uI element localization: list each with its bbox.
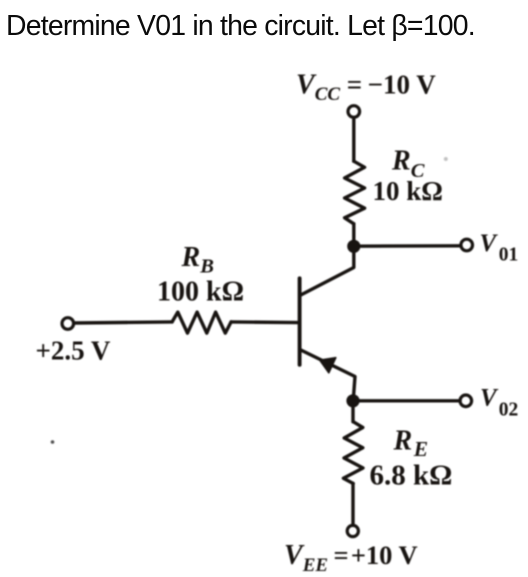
svg-text:6.8 kΩ: 6.8 kΩ	[370, 460, 453, 492]
resistor RC	[345, 161, 365, 224]
svg-text:10 kΩ: 10 kΩ	[373, 176, 443, 206]
svg-text:100 kΩ: 100 kΩ	[157, 276, 244, 307]
resistor RB	[172, 312, 231, 333]
+2.5V terminal	[62, 318, 74, 330]
wire RC to collector node	[352, 224, 355, 247]
wire RE to VEE terminal	[351, 484, 354, 526]
svg-text:RB: RB	[181, 242, 214, 278]
svg-text:VCC= −10 V: VCC= −10 V	[296, 70, 436, 106]
V01 terminal	[461, 239, 473, 251]
svg-text:VEE= +10 V: VEE= +10 V	[284, 540, 418, 576]
wire VCC to RC	[352, 118, 355, 162]
svg-text:RE: RE	[393, 425, 429, 461]
wire node to V02 terminal	[353, 399, 460, 402]
VEE terminal	[347, 525, 358, 536]
wire node to V01 terminal	[354, 244, 461, 248]
svg-text:+2.5 V: +2.5 V	[36, 336, 111, 366]
resistor RE	[343, 422, 363, 484]
V02 terminal	[460, 395, 472, 407]
transistor Q1 base bar	[298, 278, 302, 365]
VCC terminal	[348, 106, 360, 118]
emitter lead with elbow	[300, 350, 355, 401]
svg-text:V02: V02	[480, 385, 518, 421]
wire base: +2.5V terminal to RB	[74, 322, 172, 323]
emitter arrow (PNP, pointing to base)	[320, 358, 336, 373]
svg-text:V01: V01	[480, 230, 519, 265]
collector lead	[300, 246, 354, 295]
wire RB to base	[231, 320, 298, 324]
node collector junction dot	[347, 240, 360, 253]
wire emitter node to RE	[351, 401, 354, 422]
speck	[51, 440, 55, 444]
title text	[6, 10, 475, 43]
node emitter junction dot	[346, 394, 359, 407]
